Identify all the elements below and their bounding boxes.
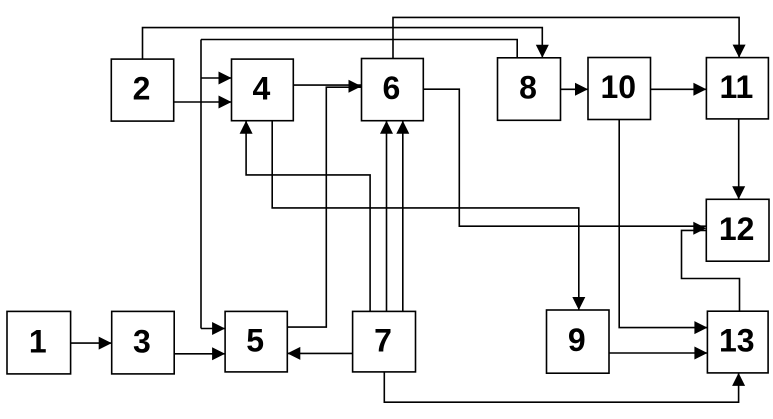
svg-text:3: 3 — [133, 323, 151, 359]
svg-text:8: 8 — [519, 70, 537, 106]
svg-text:1: 1 — [29, 323, 47, 359]
svg-text:9: 9 — [568, 322, 586, 358]
svg-text:7: 7 — [374, 322, 392, 358]
svg-text:11: 11 — [719, 69, 753, 105]
svg-text:4: 4 — [253, 71, 271, 107]
svg-text:5: 5 — [246, 322, 264, 358]
svg-text:2: 2 — [133, 71, 151, 107]
svg-text:13: 13 — [719, 323, 755, 359]
svg-text:10: 10 — [600, 69, 636, 105]
svg-text:6: 6 — [383, 70, 401, 106]
svg-text:12: 12 — [719, 211, 755, 247]
